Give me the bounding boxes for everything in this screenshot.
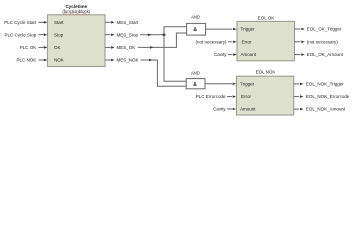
svg-text:Error: Error	[241, 94, 252, 99]
wire PLC Cycle Start to Start	[38, 21, 44, 23]
svg-text:PLC Cycle Start: PLC Cycle Start	[4, 20, 37, 25]
svg-text:EOL NOK: EOL NOK	[256, 70, 276, 75]
wire OK output	[105, 46, 111, 48]
wire EOL_NOK_Trigger output	[294, 83, 300, 85]
wire AND1 output to EOL OK Trigger	[206, 28, 233, 30]
junction on MES_Stop net	[163, 33, 166, 36]
wire PLC Cycle Stop to Stop	[38, 34, 44, 36]
svg-text:MES_Stop: MES_Stop	[117, 32, 139, 37]
svg-text:(not necessary): (not necessary)	[195, 39, 227, 44]
wire MES_NOK to AND2 input 2	[141, 60, 187, 86]
svg-text:EOL_OK_Amount: EOL_OK_Amount	[307, 52, 344, 57]
svg-text:Start: Start	[54, 20, 64, 25]
wire EOL_NOK_Amount output	[294, 108, 300, 110]
svg-text:(functionblock): (functionblock)	[62, 9, 91, 14]
svg-text:EOL_NOK_Amount: EOL_NOK_Amount	[306, 107, 346, 112]
svg-text:EOL OK: EOL OK	[258, 15, 275, 20]
svg-text:NOK: NOK	[54, 58, 64, 63]
svg-text:PLC OK: PLC OK	[20, 45, 37, 50]
and gate U4	[186, 79, 205, 89]
svg-text:Stop: Stop	[54, 32, 64, 37]
and gate U2	[187, 23, 206, 35]
wire MES_Stop up to AND1 input 1	[164, 27, 187, 35]
svg-text:(not necessary): (not necessary)	[307, 39, 339, 44]
wire MES_Stop down to AND2 input 1	[164, 35, 186, 82]
svg-text:Trigger: Trigger	[241, 27, 256, 32]
wire PLC Errorcode to Error	[227, 96, 232, 98]
svg-text:Cavity: Cavity	[214, 52, 227, 57]
svg-text:Amount: Amount	[240, 107, 256, 112]
wire Cavity to Amount (bottom)	[227, 108, 232, 110]
function block U5 EOL NOK	[237, 76, 294, 115]
svg-text:EOL_OK_Trigger: EOL_OK_Trigger	[307, 27, 342, 32]
wire PLC OK to OK	[38, 46, 44, 48]
wire (not necessary) output	[295, 41, 301, 43]
wire Stop output	[105, 34, 111, 36]
wire Start output	[105, 21, 111, 23]
wire EOL_OK_Trigger output	[295, 28, 301, 30]
svg-text:PLC Errorcode: PLC Errorcode	[196, 94, 226, 99]
function block U1 Cycletime	[48, 15, 106, 67]
svg-text:Amount: Amount	[241, 52, 257, 57]
svg-text:OK: OK	[54, 45, 61, 50]
wire NOK output	[105, 59, 111, 61]
svg-text:MES_Start: MES_Start	[117, 20, 140, 25]
wire MES_OK to AND1 input 2	[138, 33, 187, 47]
svg-text:MES_OK: MES_OK	[117, 45, 136, 50]
svg-text:EOL_NOK_Errorcode: EOL_NOK_Errorcode	[306, 94, 350, 99]
svg-text:MES_NOK: MES_NOK	[117, 58, 139, 63]
svg-text:Error: Error	[242, 39, 253, 44]
spellcheck squiggle under (functionblock)	[64, 14, 90, 15]
svg-text:AND: AND	[191, 70, 200, 75]
wire EOL_OK_Amount output	[295, 54, 301, 56]
svg-text:AND: AND	[191, 15, 200, 20]
svg-text:PLC Cycle Stop: PLC Cycle Stop	[5, 32, 37, 37]
wire EOL_NOK_Errorcode output	[294, 96, 300, 98]
svg-text:Cycletime: Cycletime	[65, 4, 87, 9]
svg-text:EOL_NOK_Trigger: EOL_NOK_Trigger	[306, 81, 344, 86]
svg-text:Trigger: Trigger	[240, 81, 255, 86]
wire (not necessary) to Error	[228, 41, 233, 43]
wire MES_Stop to junction	[140, 34, 164, 36]
svg-text:&: &	[193, 27, 197, 33]
wire PLC NOK to NOK	[38, 59, 44, 61]
wire AND2 output to EOL NOK Trigger	[205, 83, 232, 85]
svg-text:PLC NOK: PLC NOK	[17, 58, 37, 63]
svg-text:&: &	[193, 82, 197, 88]
function block U3 EOL OK	[237, 21, 295, 60]
svg-text:Cavity: Cavity	[213, 107, 226, 112]
wire Cavity to Amount (top)	[228, 54, 233, 56]
